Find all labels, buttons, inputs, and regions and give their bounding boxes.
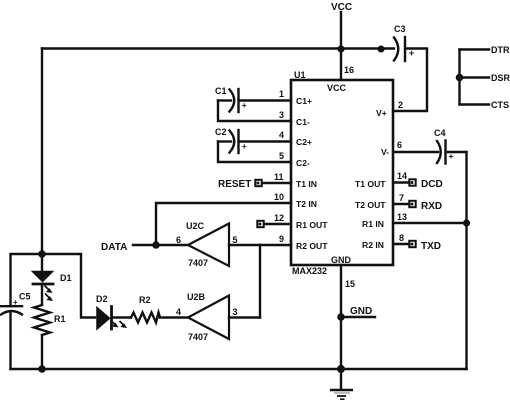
wire pin 14 to DCD pad	[394, 181, 408, 183]
pin 9	[279, 234, 284, 244]
op-amp U1 MAX232 body	[291, 70, 393, 265]
wire pin 13 to right rail	[394, 222, 467, 224]
svg-text:2: 2	[398, 100, 403, 110]
wire C2 loop to pin 5	[218, 142, 291, 163]
svg-text:R1 IN: R1 IN	[362, 219, 384, 229]
wire C2 to pin 4	[240, 140, 292, 142]
wire GND stub	[341, 316, 375, 318]
ground symbol	[330, 369, 353, 399]
svg-text:DATA: DATA	[101, 242, 127, 253]
svg-text:CTS: CTS	[491, 100, 509, 110]
svg-text:RXD: RXD	[421, 201, 442, 212]
svg-text:6: 6	[397, 140, 402, 150]
svg-text:DSR: DSR	[491, 73, 510, 83]
pin 11	[274, 172, 284, 182]
wire pad to pin 12	[265, 223, 291, 225]
node junction center ground	[337, 365, 345, 373]
svg-text:C1+: C1+	[296, 96, 312, 106]
pin 6	[397, 140, 402, 150]
svg-text:U2C: U2C	[186, 221, 205, 231]
svg-text:C1: C1	[215, 86, 227, 96]
pin 1	[279, 89, 284, 99]
svg-text:3: 3	[279, 110, 284, 120]
svg-text:C5: C5	[19, 292, 31, 302]
svg-text:3: 3	[233, 307, 238, 317]
wire C1 loop to pin 3	[218, 101, 291, 122]
wire pin 8 to TXD pad	[394, 243, 408, 245]
wire pin 10 to DATA junction	[156, 203, 291, 245]
svg-text:8: 8	[399, 233, 404, 243]
svg-text:4: 4	[279, 130, 284, 140]
svg-text:R2 IN: R2 IN	[362, 240, 384, 250]
svg-text:T2 OUT: T2 OUT	[355, 200, 386, 210]
svg-text:DCD: DCD	[421, 179, 443, 190]
svg-text:7407: 7407	[188, 332, 208, 342]
node junction DSR	[456, 74, 464, 82]
wire R2 to U2B input	[160, 316, 188, 318]
capacitor C1	[215, 86, 247, 112]
wire VCC stub down to pin 16	[340, 12, 342, 80]
svg-text:D1: D1	[60, 273, 72, 283]
svg-text:V-: V-	[381, 147, 389, 157]
wire top VCC rail	[42, 47, 394, 49]
wire branch down to U2B output	[259, 245, 261, 318]
net label TXD	[421, 241, 441, 252]
node junction left ground	[38, 365, 46, 373]
pin 4	[279, 130, 284, 140]
svg-text:RESET: RESET	[218, 179, 251, 190]
svg-text:GND: GND	[350, 306, 372, 317]
svg-text:5: 5	[233, 235, 238, 245]
svg-text:15: 15	[345, 279, 355, 289]
svg-text:R2: R2	[139, 295, 151, 305]
resistor R1	[34, 305, 66, 335]
net label GND	[350, 306, 372, 317]
svg-text:R1: R1	[54, 314, 66, 324]
net label VCC	[331, 2, 352, 13]
svg-text:11: 11	[274, 172, 284, 182]
diode D1 LED	[33, 272, 72, 302]
svg-text:T1 IN: T1 IN	[296, 179, 317, 189]
wire U2B pin3 up to U2C line	[229, 316, 260, 318]
op-amp U2B buffer 7407	[176, 292, 238, 342]
svg-text:14: 14	[397, 171, 407, 181]
svg-text:D2: D2	[96, 294, 108, 304]
svg-text:C4: C4	[434, 128, 446, 138]
wire U2C pin5 to pin 9 R2 OUT	[229, 244, 291, 246]
svg-text:T2 IN: T2 IN	[296, 199, 317, 209]
net label DTR	[491, 45, 510, 55]
pin 15	[345, 279, 355, 289]
pin 12	[274, 213, 284, 223]
wire pin 6 to C4	[394, 151, 438, 153]
pad RESET terminal	[255, 180, 261, 186]
svg-text:R1 OUT: R1 OUT	[296, 220, 328, 230]
svg-text:U2B: U2B	[187, 292, 206, 302]
net label CTS	[491, 100, 509, 110]
wire D2 to R2	[113, 316, 132, 318]
wire C1 to pin 1	[240, 99, 292, 101]
pad TXD terminal	[409, 241, 415, 247]
diode D2 LED	[96, 294, 127, 329]
svg-text:C2+: C2+	[296, 137, 312, 147]
node junction VCC to LED branch	[38, 250, 46, 258]
svg-text:9: 9	[279, 234, 284, 244]
capacitor C5	[1, 254, 42, 369]
svg-text:C2: C2	[215, 127, 227, 137]
svg-text:C2-: C2-	[296, 158, 310, 168]
pin 8	[399, 233, 404, 243]
node junction DATA	[152, 241, 160, 249]
net label RXD	[421, 201, 442, 212]
svg-text:DTR: DTR	[491, 45, 510, 55]
wire RESET to pin 11	[263, 182, 291, 184]
connector DTR/DSR/CTS tie	[460, 50, 490, 105]
svg-text:7407: 7407	[188, 258, 208, 268]
net label DSR	[491, 73, 510, 83]
net label RESET	[218, 179, 251, 190]
svg-text:5: 5	[279, 151, 284, 161]
pin 7	[399, 193, 404, 203]
wire C4 to right rail	[447, 151, 467, 153]
pin 10	[274, 192, 284, 202]
wire pin 7 to RXD pad	[394, 203, 408, 205]
svg-text:V+: V+	[376, 108, 387, 118]
value label MAX232	[292, 266, 327, 276]
capacitor C3	[394, 24, 414, 61]
svg-text:1: 1	[279, 89, 284, 99]
svg-text:7: 7	[399, 193, 404, 203]
svg-text:12: 12	[274, 213, 284, 223]
svg-text:TXD: TXD	[421, 241, 441, 252]
svg-text:GND: GND	[331, 255, 352, 265]
svg-text:6: 6	[176, 235, 181, 245]
pad DCD terminal	[409, 179, 415, 185]
op-amp U2C buffer 7407	[176, 221, 238, 268]
wire D1 to R1	[41, 284, 43, 305]
wire left VCC rail	[41, 49, 43, 272]
svg-text:16: 16	[344, 65, 354, 75]
wire VCC junction to D2	[42, 254, 95, 318]
node junction at C3	[378, 46, 385, 53]
svg-text:U1: U1	[294, 70, 306, 80]
net label DATA	[101, 242, 127, 253]
pin 13	[397, 212, 407, 222]
pin 5	[279, 151, 284, 161]
svg-text:13: 13	[397, 212, 407, 222]
wire right rail	[465, 152, 467, 369]
wire DATA to U2C input	[133, 244, 188, 246]
svg-text:10: 10	[274, 192, 284, 202]
svg-text:C3: C3	[394, 24, 406, 34]
capacitor C2	[215, 127, 247, 153]
svg-text:C1-: C1-	[296, 117, 310, 127]
pin 16	[344, 65, 354, 75]
resistor R2	[131, 295, 160, 323]
pin 3	[279, 110, 284, 120]
pin 2	[398, 100, 403, 110]
pad RXD terminal	[409, 201, 415, 207]
svg-text:T1 OUT: T1 OUT	[355, 179, 386, 189]
svg-text:R2 OUT: R2 OUT	[296, 241, 328, 251]
svg-text:4: 4	[176, 307, 181, 317]
svg-text:VCC: VCC	[327, 83, 347, 93]
pad pin 12 terminal	[257, 221, 263, 227]
wire R1 to ground rail	[41, 335, 43, 369]
wire C3 to pin 2 (V+)	[394, 49, 427, 112]
wire pin 15 down to ground	[340, 265, 342, 369]
capacitor C4	[434, 128, 454, 164]
pin 14	[397, 171, 407, 181]
node junction GND stub	[337, 313, 345, 321]
wire bottom ground rail	[11, 368, 467, 370]
node junction VCC/pin16	[337, 45, 344, 52]
svg-text:MAX232: MAX232	[292, 266, 327, 276]
net label DCD	[421, 179, 443, 190]
node junction pin13/right rail	[463, 219, 470, 226]
